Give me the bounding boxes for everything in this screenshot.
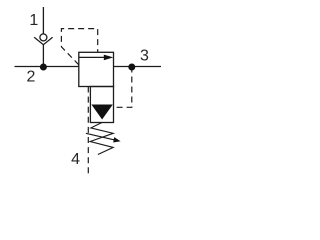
svg-text:1: 1 bbox=[29, 12, 38, 29]
svg-text:4: 4 bbox=[71, 151, 80, 168]
svg-text:2: 2 bbox=[27, 69, 36, 86]
svg-text:3: 3 bbox=[140, 48, 149, 65]
